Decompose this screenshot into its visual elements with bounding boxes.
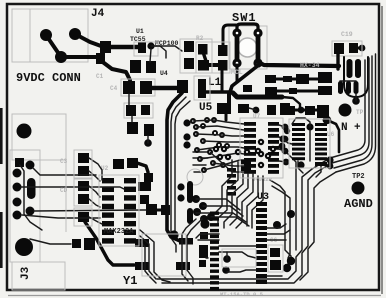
U2 right pads column [124,178,136,244]
pad5 [207,213,215,221]
wire C4 left down [128,94,130,105]
wire U6 area weave [292,118,310,127]
silk box Y1 [142,234,186,276]
silkscreen R1 [124,103,153,118]
wire lower pads to right [206,63,224,67]
silkscreen U1 box [134,42,158,56]
via near bundle a [273,221,281,229]
J4 pad 3 [55,51,67,63]
bar pad end [179,238,193,245]
wire SW1 to R pad [223,25,236,45]
wires from cap column to U2 [89,158,102,224]
connector J4 silkscreen outline [12,9,88,62]
via mid b [222,266,230,274]
Y1 guard arc outer b [140,236,156,279]
Y1 guard arc outer a [140,230,170,282]
R11 via [298,107,305,114]
switch SW1 silkscreen [229,26,267,69]
via left of U6 top [284,128,290,134]
blob pad b [140,195,149,204]
svg-text:N: N [341,122,348,134]
silkscreen C19 [332,41,362,56]
SW1 pad bar left [235,31,240,65]
round pads left of U3 with fans [192,195,200,203]
via cluster above U3 [213,146,276,160]
svg-text:TP2: TP2 [352,173,365,181]
right edge trace 1 [330,60,365,158]
svg-text:Y1: Y1 [123,274,137,288]
wire mid row [286,109,317,112]
wire J3 pad A to U2 [21,187,124,189]
via above U6 [306,123,313,130]
wire big circle to squares [30,239,71,244]
wires U5 right col to pads [279,125,286,162]
J3 oblong pad [27,178,36,199]
Y1 guard arc inner a [182,219,196,281]
via left lower [279,143,286,150]
U2 left pads column [102,178,114,244]
capacitor C13 bar [135,262,149,270]
silk box around 2x2 grid [180,39,212,73]
pad C1 bottom left [96,53,105,64]
scan edge artifact left bottom [0,212,3,268]
bar row B left small [243,85,252,92]
pad4 [200,215,208,223]
right edge trace 4 [336,54,376,172]
via fan left of U5 [190,117,230,173]
svg-text:J4: J4 [91,8,105,20]
bar right mid [318,72,332,83]
header bar 3 [354,81,359,94]
right edge trace 2 [332,58,369,163]
blob pad c [146,204,157,215]
round pad filled near IN [339,104,352,117]
wire C19 pads [353,47,362,50]
wire SW1 diagonal to L1 row [230,64,260,92]
outer scan line bottom [8,295,381,297]
bundle end pad 1 [287,257,295,265]
pad3 [193,208,201,216]
silk box right of col [268,245,283,272]
capacitor C19 pad left [334,43,344,54]
left squares column: cap pad 1 [78,153,89,163]
test point TP2 pad [352,182,365,195]
square pad bottom b [84,238,95,250]
svg-text:9VDC CONN: 9VDC CONN [16,71,81,85]
wire blob c to d [155,209,162,212]
blob pad a [138,182,151,191]
via bottom right [326,156,333,163]
wire J3 pad E short [33,168,96,175]
U1 pad [138,42,146,53]
outer scan line right [381,6,383,294]
resistor R2 pad top [218,45,228,56]
svg-text:MT-15A-TD 0.5: MT-15A-TD 0.5 [220,291,264,298]
cap pad 2 [78,166,89,176]
fan wires vias to U5 [193,120,244,172]
Y1 guard arc outer c [140,241,156,283]
pad row right b [280,103,290,115]
via below C6 [144,139,152,147]
wire pad to via [249,108,256,110]
silk box U3 mid [222,249,256,267]
connector J3 silkscreen outline [10,150,40,262]
J4 pad 2 [69,28,81,40]
svg-text:+: + [354,122,361,134]
silk vertical line mid-left [65,152,67,232]
svg-text:MCL: MCL [231,69,243,76]
J4 pad 1 [40,29,52,41]
wire J3 pin1 link [20,165,42,230]
svg-text:U7: U7 [253,113,261,120]
scan edge artifact left top [0,108,3,164]
header bar 2 [346,81,351,94]
MCP100 pad upper right [184,41,194,52]
resistor R1 pad left [126,105,136,116]
connector silkscreen box lower (power jack) [12,114,66,160]
silk box U5 [240,118,283,178]
silkscreen C4 [121,79,155,96]
wire C7 to right [277,90,289,93]
svg-text:MAX232A: MAX232A [104,228,134,236]
square pad right of col a [270,248,280,257]
capacitor C2 pad right [146,61,156,73]
capacitor C19 pad right [349,43,358,53]
trace companion 1 [171,97,186,252]
via right [253,107,260,114]
wire U6 bottom to bundle b [316,166,321,177]
wire J4 pad1 to pad3 [46,35,61,57]
via below U6 [297,161,304,168]
resistor R9 pad [283,76,292,82]
U5 right IC pads column [268,122,279,174]
svg-text:U6: U6 [327,131,335,138]
wire row B right [297,90,318,93]
svg-text:CD: CD [60,187,68,194]
silk box U6 [289,119,330,168]
silk box L1 [194,76,210,100]
bar row A left [265,75,276,83]
svg-text:C19: C19 [341,31,353,38]
bar row B mid [289,88,297,94]
via near bundle b [287,210,295,218]
J3 pad A [13,169,22,178]
svg-text:HX-34: HX-34 [300,62,320,69]
capacitor pad lower [198,60,209,71]
silk box U2 [99,175,139,246]
svg-text:AGND: AGND [344,197,373,211]
capacitor C9 square pad [317,105,329,118]
U3 bottom right pads column [256,202,267,284]
wire U6 center gap vertical [309,130,311,161]
J3 pad C [13,198,22,207]
Y1 guard arc inner b [187,219,202,284]
silk circle cap [187,169,203,185]
square pad right of col b [270,260,281,270]
U6 left IC pads column [292,123,305,160]
wires into U5 bottom from left [193,152,212,172]
square pad left of col a [200,232,208,239]
pads right of mid column [241,160,251,164]
vertical bars right of U2 [187,181,193,203]
pads left column outer [183,119,190,126]
capacitor pad lower right [218,60,228,71]
crystal via [169,230,178,239]
via right of U2 b [177,194,184,201]
via left of IN [323,116,331,124]
wire C11 to R pad [137,163,148,177]
J3 pad F right column [26,207,35,216]
J3 mounting hole big [15,238,33,256]
R12 bar [305,106,315,115]
SW1 top bridge wire [237,24,258,31]
square pad left of col c [199,260,206,267]
via top of U3 col [200,219,209,228]
via below header [352,97,360,105]
SW1 corner pads [232,28,241,37]
wire thick bar below L1 row [233,93,282,97]
wire J3 lower long [22,215,100,218]
wire bar to U6 top [282,97,300,108]
wires between bottom columns [196,234,256,272]
U1 via [147,42,154,49]
wire SW1 bottom right thick to C19 [258,62,339,66]
J3 pad E right column [26,161,35,170]
pad b [241,167,251,171]
wire U6 bottom to bundle a [298,161,303,173]
wire via to via [150,49,151,62]
loop inner bar 1 [347,59,353,78]
wire thick diagonal to Y1 area [85,222,134,265]
wire U1 via branch [151,46,166,58]
wire J3 pad D long [34,210,146,211]
svg-text:R2: R2 [196,35,204,42]
corner bundle trace 1 [270,180,291,260]
capacitor C11 pad [127,158,138,168]
wire C1 to U1 [104,45,140,49]
capacitor C1 pad left [100,41,111,53]
wire from IN via down (forms I of IN) [327,120,339,152]
wire diagonal between pads [203,52,206,61]
bar row A mid [296,74,309,84]
wire R1 to C6 [131,116,133,122]
capacitor C6 pad right [144,124,154,136]
trace companion 2 [175,101,190,232]
cap pad 5 [78,212,89,222]
MCP100 pad right [184,58,194,69]
J3 pad D [13,211,22,220]
wire J4 pad3 to C1 [61,55,100,59]
capacitor C2 pad left [130,60,141,73]
resistor pad below [144,173,153,182]
wire C4 to C5 [146,86,182,90]
trace loop top right [344,57,368,97]
pad right of blob [238,104,249,113]
J3 pin 1 square pad [15,158,24,167]
vias between U5 columns [258,139,264,145]
svg-text:C4: C4 [110,85,118,92]
square pad left of col b [199,245,208,258]
wire C19 left pad down [336,54,339,69]
blob pad d [161,205,170,215]
mounting pad round [17,124,32,139]
svg-text:U4: U4 [160,70,168,77]
wire C1 bottom to C2 [100,60,130,80]
wire stub below blob [225,114,228,120]
wire C6 to via [147,136,149,143]
right edge trace 3 [334,56,372,168]
pad2 [199,202,207,210]
silkscreen small boxes near SW1 [196,42,230,73]
U6 right IC pads column [315,123,327,166]
capacitor C5 pad [177,80,188,93]
wire U6 left down [283,139,292,144]
via bottom right2 [327,163,334,170]
capacitor C7 pad [265,87,277,95]
wire stub above U5 blob [227,94,231,106]
capacitor C4 pad right [140,81,152,94]
capacitor C4 pad left [123,81,135,94]
resistor R10 bar [318,86,332,95]
corner bundle trace 3 [286,152,296,250]
wire right top thick row [270,78,318,81]
wires right column to right [267,224,290,276]
U5 top blob pad [217,103,231,114]
U3 bottom left pads column [210,212,219,291]
loop inner bar 2 [355,59,361,78]
vertical bar lower [187,208,193,224]
via left of U6 [279,135,286,142]
svg-text:C3: C3 [60,158,68,165]
wire SW1 left pad drop [236,65,239,82]
svg-text:U1: U1 [136,28,144,35]
corner bundle trace 6 [300,172,336,280]
wire header tops [340,80,356,82]
wire J4 pad2 to C1 top [75,34,101,46]
SW1 pad bar right [256,31,261,65]
via top right of U6 [323,117,330,124]
fan wires from pads [196,199,249,226]
C19 via [359,45,366,52]
resistor pads left of SW1 [198,44,208,55]
cap pad 4 [78,194,89,204]
diagonal bundle center [214,160,263,228]
corner bundle trace 2 [272,186,290,266]
svg-text:U5: U5 [199,102,213,114]
resistor R1 pad right [141,105,150,115]
header pins top right: bar 1 [338,81,343,94]
long vertical trace from C5 [167,93,182,241]
right mid row: resistor R11 pads [286,106,295,115]
bundle end pad 2 [283,264,291,272]
wire L1 row horizontal [206,90,232,93]
crystal pad right [176,262,190,270]
wire MCP100 pads [155,46,182,51]
svg-text:J3: J3 [20,266,32,280]
svg-text:D+0B2R: D+0B2R [252,176,273,183]
cap pad 3 [78,181,89,191]
J3 pad B [13,183,22,192]
capacitor C12 bar [135,239,149,247]
svg-text:TP: TP [356,109,364,116]
wire header to via [355,94,357,101]
square pad bottom a [72,239,81,248]
U5 left IC pads column [244,122,256,174]
capacitor C10 pad [113,159,124,169]
U3 small pads column mid [227,168,236,196]
pad row right a [267,105,276,115]
corner bundle trace 4 [157,158,330,279]
round pads right of U5 [282,124,289,131]
silk boxes cap column left [74,150,92,178]
via right of U2 a [177,183,184,190]
svg-text:C1: C1 [96,73,104,80]
inductor L1 pad bar [198,79,206,98]
corner bundle trace 5 [162,163,332,283]
capacitor C6 pad left [127,122,138,134]
SW1 button circle [238,38,257,57]
via mid a [223,255,231,263]
U4 via [146,62,154,70]
wire sq to L1 row [221,70,224,92]
